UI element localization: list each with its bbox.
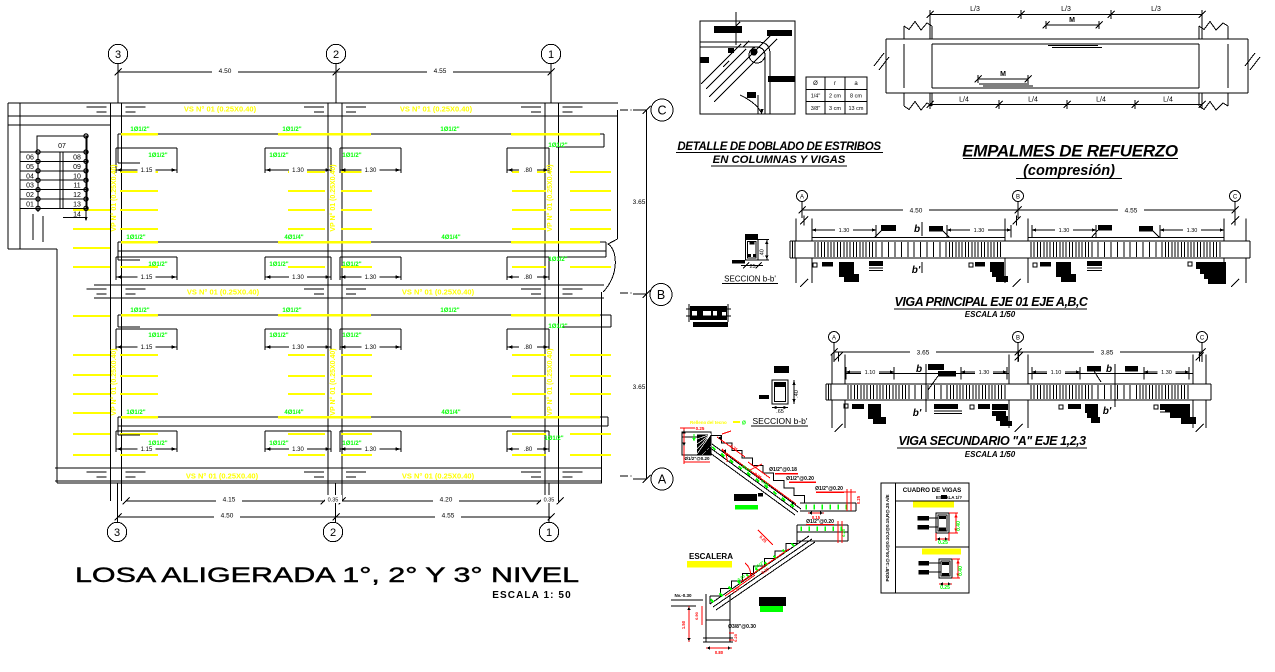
- svg-text:1: 1: [546, 527, 552, 539]
- svg-text:L/3: L/3: [970, 6, 980, 13]
- svg-text:1Ø1/2": 1Ø1/2": [548, 143, 567, 149]
- escalera upper flight landing: [680, 426, 721, 464]
- right edge axis dash marks: [620, 109, 632, 477]
- svg-text:13 cm: 13 cm: [849, 106, 864, 112]
- svg-text:L/3: L/3: [1151, 6, 1161, 13]
- svg-text:EMPALMES DE REFUERZO: EMPALMES DE REFUERZO: [962, 142, 1178, 161]
- viga secundario top dims: [846, 367, 1189, 380]
- svg-text:0.25: 0.25: [758, 534, 768, 544]
- svg-text:3.65: 3.65: [633, 384, 646, 391]
- svg-text:1.30: 1.30: [1187, 228, 1198, 234]
- title viga principal: [894, 295, 1089, 319]
- svg-text:14: 14: [73, 212, 81, 219]
- svg-text:1.30: 1.30: [292, 168, 304, 174]
- escalera flight2 wall and footing: [671, 593, 756, 655]
- svg-text:C: C: [1200, 336, 1205, 342]
- svg-text:25: 25: [749, 264, 755, 270]
- viga principal bottom bar symbols: [813, 261, 1226, 284]
- escalera flight2 green slope texts: [737, 560, 765, 582]
- beam columns: [796, 216, 1246, 288]
- bay1 bastones lower row with dims: [116, 257, 549, 281]
- svg-text:0.40: 0.40: [956, 521, 962, 531]
- svg-text:A: A: [658, 473, 667, 487]
- svg-text:Nv.-0.30: Nv.-0.30: [675, 593, 692, 598]
- svg-text:1Ø1/2": 1Ø1/2": [269, 441, 288, 447]
- viga principal axis circles and dims: [797, 191, 1241, 219]
- svg-text:B: B: [657, 288, 665, 302]
- svg-text:06: 06: [26, 155, 34, 162]
- svg-text:09: 09: [73, 164, 81, 171]
- cuadro cell 1 viga section: [913, 502, 962, 547]
- svg-text:08: 08: [73, 155, 81, 162]
- svg-text:4Ø1/4": 4Ø1/4": [284, 410, 303, 416]
- svg-text:1.30: 1.30: [365, 168, 377, 174]
- svg-text:13: 13: [73, 202, 81, 209]
- svg-text:1Ø1/2": 1Ø1/2": [282, 127, 301, 133]
- stair plan: [20, 134, 88, 242]
- svg-text:.80: .80: [524, 447, 533, 453]
- svg-text:1.15: 1.15: [141, 275, 153, 281]
- svg-text:VS N° 01 (0.25X0.40): VS N° 01 (0.25X0.40): [402, 288, 475, 297]
- svg-text:B: B: [1016, 336, 1020, 342]
- small joint plan detail black: [686, 304, 731, 327]
- svg-text:3 cm: 3 cm: [829, 106, 841, 112]
- svg-text:VP N° 01 (0.25X0.40): VP N° 01 (0.25X0.40): [329, 164, 337, 231]
- escalera annotation texts upper: [769, 467, 844, 492]
- svg-text:0.25: 0.25: [696, 426, 705, 431]
- svg-text:CUADRO DE VIGAS: CUADRO DE VIGAS: [903, 487, 961, 494]
- svg-text:1Ø1/2": 1Ø1/2": [440, 127, 459, 133]
- svg-text:1Ø1/2": 1Ø1/2": [130, 127, 149, 133]
- svg-text:4.50: 4.50: [221, 513, 234, 520]
- svg-text:1.30: 1.30: [292, 345, 304, 351]
- svg-text:1.15: 1.15: [141, 447, 153, 453]
- title empalmes de refuerzo: [962, 142, 1178, 180]
- svg-text:LOSA ALIGERADA 1°, 2° Y 3° NIV: LOSA ALIGERADA 1°, 2° Y 3° NIVEL: [75, 563, 579, 587]
- svg-text:1.15: 1.15: [141, 345, 153, 351]
- svg-text:2: 2: [330, 527, 336, 539]
- svg-text:VIGA PRINCIPAL EJE 01 EJE A,B,: VIGA PRINCIPAL EJE 01 EJE A,B,C: [895, 295, 1089, 309]
- svg-text:1.30: 1.30: [1161, 370, 1172, 376]
- svg-text:3: 3: [114, 527, 120, 539]
- svg-text:1.30: 1.30: [365, 345, 377, 351]
- empalmes M dims: [975, 17, 1103, 83]
- svg-text:1Ø1/2": 1Ø1/2": [148, 441, 167, 447]
- svg-text:03: 03: [26, 183, 34, 190]
- svg-text:2 cm: 2 cm: [829, 94, 841, 100]
- svg-text:1Ø1/2": 1Ø1/2": [342, 441, 361, 447]
- svg-text:10: 10: [73, 173, 81, 180]
- svg-text:0.25: 0.25: [731, 585, 741, 594]
- svg-text:Ø: Ø: [813, 81, 818, 87]
- svg-text:.80: .80: [524, 168, 533, 174]
- svg-text:1Ø1/2": 1Ø1/2": [342, 262, 361, 268]
- svg-text:4.50: 4.50: [910, 208, 923, 215]
- svg-text:0.35: 0.35: [544, 498, 555, 504]
- svg-text:Ø1/2"@0.18: Ø1/2"@0.18: [769, 467, 797, 473]
- escalera upper flight steps: [706, 436, 805, 516]
- svg-text:0.25: 0.25: [841, 528, 846, 537]
- green rebar labels plan: [126, 127, 567, 447]
- svg-text:1Ø1/2": 1Ø1/2": [148, 153, 167, 159]
- yellow beam name texts VP N 01 vertical: [110, 164, 554, 415]
- svg-text:1Ø1/2": 1Ø1/2": [126, 235, 145, 241]
- svg-text:VP N° 01 (0.25X0.40): VP N° 01 (0.25X0.40): [546, 164, 554, 231]
- svg-text:0.25: 0.25: [856, 495, 861, 504]
- svg-text:VP N° 01 (0.25X0.40): VP N° 01 (0.25X0.40): [329, 348, 337, 415]
- svg-text:ESCALA 1: 50: ESCALA 1: 50: [492, 590, 572, 601]
- svg-text:VIGA SECUNDARIO "A" EJE 1,2,3: VIGA SECUNDARIO "A" EJE 1,2,3: [898, 434, 1086, 448]
- svg-text:0.25: 0.25: [940, 585, 950, 591]
- svg-text:3/8": 3/8": [811, 106, 821, 112]
- svg-text:02: 02: [26, 192, 34, 199]
- axis circle C: [651, 99, 673, 121]
- svg-text:Ø1/2"@0.20: Ø1/2"@0.20: [684, 456, 710, 461]
- svg-text:PØ3/8":1@.05,4@0.10,2@0.15,R@.: PØ3/8":1@.05,4@0.10,2@0.15,R@.25 A/E: [885, 494, 890, 581]
- svg-text:ESCALERA: ESCALERA: [689, 552, 733, 561]
- svg-text:b': b': [912, 265, 921, 276]
- svg-text:.65: .65: [776, 409, 784, 415]
- svg-text:1Ø1/2": 1Ø1/2": [548, 324, 567, 330]
- escalera legend blocks: [734, 493, 786, 612]
- svg-text:07: 07: [58, 143, 66, 150]
- svg-text:A: A: [832, 336, 836, 342]
- svg-text:1.30: 1.30: [839, 228, 850, 234]
- svg-text:4Ø1/4": 4Ø1/4": [441, 410, 460, 416]
- svg-text:A: A: [800, 195, 804, 201]
- svg-text:1.15: 1.15: [141, 168, 153, 174]
- svg-text:3: 3: [115, 49, 121, 61]
- svg-text:VP N° 01 (0.25X0.40): VP N° 01 (0.25X0.40): [546, 348, 554, 415]
- svg-text:0.25: 0.25: [938, 540, 948, 546]
- bay2 bastones lower row with dims: [116, 431, 549, 453]
- svg-text:0.90: 0.90: [694, 611, 699, 620]
- empalmes lap splice bars: [979, 46, 1102, 87]
- svg-text:1Ø1/2": 1Ø1/2": [148, 333, 167, 339]
- svg-text:del tecno: del tecno: [707, 420, 727, 425]
- svg-text:1Ø1/2": 1Ø1/2": [269, 262, 288, 268]
- svg-text:.40: .40: [760, 249, 766, 257]
- svg-text:.80: .80: [524, 345, 533, 351]
- svg-text:1Ø1/2": 1Ø1/2": [269, 153, 288, 159]
- title detalle de doblado de estribos: [676, 141, 883, 166]
- svg-text:1Ø1/2": 1Ø1/2": [342, 333, 361, 339]
- svg-text:1Ø1/2": 1Ø1/2": [282, 308, 301, 314]
- cuadro cell 2 viga section: [919, 549, 965, 592]
- svg-text:EN COLUMNAS Y VIGAS: EN COLUMNAS Y VIGAS: [713, 154, 846, 166]
- svg-text:4Ø1/4": 4Ø1/4": [284, 235, 303, 241]
- svg-text:DETALLE DE DOBLADO DE ESTRIBOS: DETALLE DE DOBLADO DE ESTRIBOS: [677, 141, 881, 153]
- svg-text:1.30: 1.30: [365, 275, 377, 281]
- svg-text:b: b: [1106, 364, 1112, 375]
- svg-text:3.85: 3.85: [1101, 350, 1114, 357]
- svg-text:05: 05: [26, 164, 34, 171]
- svg-text:4.55: 4.55: [442, 513, 455, 520]
- svg-text:M: M: [1000, 71, 1006, 78]
- svg-text:1/4": 1/4": [811, 94, 821, 100]
- escalera lower landing of flight1: [800, 489, 861, 520]
- svg-text:VS N° 01 (0.25X0.40): VS N° 01 (0.25X0.40): [184, 105, 257, 114]
- svg-text:VP N° 01 (0.25X0.40): VP N° 01 (0.25X0.40): [110, 164, 118, 231]
- plan top dimension line and axis circles: [108, 44, 560, 103]
- yellow beam name texts VS N 01: [184, 105, 475, 481]
- svg-text:8 cm: 8 cm: [850, 94, 862, 100]
- svg-text:1.30: 1.30: [292, 447, 304, 453]
- escalera flight2 steps: [710, 536, 815, 610]
- svg-text:1.50: 1.50: [681, 620, 686, 629]
- svg-text:1Ø1/2": 1Ø1/2": [130, 308, 149, 314]
- escalera flight2 red dims: [725, 530, 789, 596]
- beam flange lines: [812, 237, 1224, 239]
- svg-text:1.30: 1.30: [974, 228, 985, 234]
- svg-text:1.10: 1.10: [1051, 370, 1062, 376]
- viga secundario bar label rects top: [928, 364, 1138, 390]
- svg-text:VS N° 01 (0.25X0.40): VS N° 01 (0.25X0.40): [402, 472, 475, 481]
- bay2 top negative bar row: [118, 315, 611, 327]
- column axis lines 3 2 1: [111, 103, 559, 483]
- svg-text:Ø: Ø: [742, 421, 746, 427]
- svg-text:1Ø1/2": 1Ø1/2": [440, 308, 459, 314]
- svg-text:1.30: 1.30: [1059, 228, 1070, 234]
- svg-text:b': b': [913, 408, 922, 419]
- empalmes bottom dimension L/4: [927, 93, 1206, 109]
- svg-text:(compresión): (compresión): [1023, 163, 1115, 179]
- empalmes top dimension L/3: [927, 6, 1206, 39]
- svg-text:b: b: [916, 364, 922, 375]
- bay1 top negative bar row: [118, 134, 604, 163]
- svg-text:B: B: [1016, 195, 1020, 201]
- svg-text:ESCALA 1/?: ESCALA 1/?: [936, 495, 962, 500]
- viga secundario section cuts b-b: [913, 364, 1115, 419]
- svg-text:3.65: 3.65: [917, 350, 930, 357]
- svg-text:1: 1: [548, 49, 554, 61]
- svg-text:1Ø1/2": 1Ø1/2": [342, 153, 361, 159]
- empalmes beam outline: [874, 22, 1260, 111]
- svg-text:1.30: 1.30: [292, 275, 304, 281]
- svg-text:4.15: 4.15: [223, 497, 236, 504]
- svg-text:VP N° 01 (0.25X0.40): VP N° 01 (0.25X0.40): [110, 348, 118, 415]
- svg-text:04: 04: [26, 173, 34, 180]
- svg-text:Ø3/8"@0.30: Ø3/8"@0.30: [728, 624, 756, 630]
- svg-text:Ø1/2"@0.20: Ø1/2"@0.20: [786, 476, 814, 482]
- viga principal section cut b-b: [912, 222, 922, 276]
- svg-text:VS N° 01 (0.25X0.40): VS N° 01 (0.25X0.40): [186, 472, 259, 481]
- svg-text:VS N° 01 (0.25X0.40): VS N° 01 (0.25X0.40): [400, 105, 473, 114]
- beam body with stirrups: [826, 384, 1211, 400]
- svg-text:.80: .80: [524, 275, 533, 281]
- axis circle B: [650, 284, 672, 306]
- svg-text:ESCALA 1/50: ESCALA 1/50: [965, 310, 1016, 319]
- svg-text:11: 11: [73, 183, 80, 190]
- title viga secundario: [897, 434, 1087, 459]
- escalera upper flight green ties: [713, 447, 794, 507]
- svg-text:1Ø1/2": 1Ø1/2": [269, 333, 288, 339]
- floor plan outer boundary: [8, 103, 618, 483]
- svg-text:1Ø1/2": 1Ø1/2": [548, 257, 567, 263]
- viga secundario bottom bar symbols: [844, 404, 1196, 426]
- svg-text:SECCION b-b': SECCION b-b': [724, 275, 776, 284]
- plan bottom dimension lines and axis circles: [107, 483, 563, 542]
- svg-text:VS N° 01 (0.25X0.40): VS N° 01 (0.25X0.40): [187, 288, 260, 297]
- svg-text:4.55: 4.55: [1125, 208, 1138, 215]
- svg-text:0.25: 0.25: [733, 633, 738, 642]
- svg-text:ESCALA 1/50: ESCALA 1/50: [965, 450, 1016, 459]
- beam columns: [832, 352, 1206, 433]
- escalera label: [687, 552, 733, 568]
- svg-text:C: C: [657, 104, 666, 118]
- svg-text:1Ø1/2": 1Ø1/2": [148, 262, 167, 268]
- column ticks at beam intersections: [87, 107, 583, 477]
- svg-text:L/4: L/4: [1163, 97, 1173, 104]
- viga principal top dims 1.30: [812, 225, 1224, 238]
- svg-text:1.10: 1.10: [865, 370, 876, 376]
- estribo bending detail box: [700, 12, 795, 114]
- svg-text:3.65: 3.65: [633, 199, 646, 206]
- svg-text:0.80: 0.80: [715, 650, 724, 655]
- escalera upper flight red dims: [717, 431, 770, 481]
- svg-text:SECCION b-b': SECCION b-b': [753, 416, 808, 426]
- svg-text:.40: .40: [794, 390, 800, 398]
- svg-text:12: 12: [73, 192, 81, 199]
- axis circle A: [651, 468, 673, 490]
- yellow joist lines: [73, 172, 611, 455]
- svg-text:L/3: L/3: [1061, 6, 1071, 13]
- svg-text:0.35: 0.35: [328, 498, 339, 504]
- svg-text:01: 01: [26, 202, 34, 209]
- svg-text:C: C: [1233, 195, 1238, 201]
- escalera upper flight slope red line: [722, 449, 796, 505]
- svg-text:4.50: 4.50: [219, 68, 232, 75]
- svg-text:2: 2: [333, 49, 339, 61]
- svg-text:r: r: [834, 81, 836, 87]
- bay2 bastones upper row with dims: [116, 329, 549, 351]
- bay2 band over axis A: [118, 417, 608, 435]
- seccion b-b secundario label with yellow note: [690, 416, 808, 427]
- svg-text:1.30: 1.30: [365, 447, 377, 453]
- svg-text:M: M: [1069, 17, 1075, 24]
- svg-text:L/4: L/4: [1028, 97, 1038, 104]
- svg-text:L/4: L/4: [959, 97, 969, 104]
- estribo table: [806, 77, 867, 114]
- svg-text:4.20: 4.20: [440, 497, 453, 504]
- middle beam VS N 01 axis B: [94, 285, 604, 298]
- viga principal bar label rects top: [874, 225, 1160, 238]
- svg-text:b: b: [914, 224, 920, 235]
- escalera flight2 upper landing: [797, 519, 848, 543]
- svg-text:4.55: 4.55: [434, 68, 447, 75]
- escalera flight2 green ties: [711, 544, 795, 603]
- svg-text:1Ø1/2": 1Ø1/2": [126, 410, 145, 416]
- svg-text:Relleno: Relleno: [690, 420, 707, 425]
- seccion b-b principal: [722, 234, 778, 284]
- svg-text:4Ø1/4": 4Ø1/4": [441, 235, 460, 241]
- svg-text:Ø1/2"@0.20: Ø1/2"@0.20: [815, 486, 843, 492]
- svg-text:1Ø1/2": 1Ø1/2": [544, 436, 563, 442]
- svg-text:b': b': [1103, 406, 1112, 417]
- bottom beam VS N 01 axis A: [55, 468, 602, 481]
- top beam VS N 01 axis C: [8, 103, 618, 116]
- beam flange lines: [845, 373, 1193, 375]
- bay1 bastones upper row with dims: [116, 148, 549, 174]
- svg-text:1.30: 1.30: [979, 370, 990, 376]
- svg-text:0.40: 0.40: [958, 566, 964, 576]
- svg-text:L/4: L/4: [1096, 97, 1106, 104]
- axis line C-B-A with dimension 3.65: [633, 106, 651, 483]
- beam body with stirrups: [790, 241, 1250, 258]
- bay1 band over axis B: [118, 242, 606, 260]
- svg-text:a: a: [854, 81, 858, 87]
- cuadro de vigas table: [881, 483, 969, 593]
- viga secundario axis circles and dims: [829, 332, 1208, 363]
- seccion b-b secundario: [759, 366, 800, 415]
